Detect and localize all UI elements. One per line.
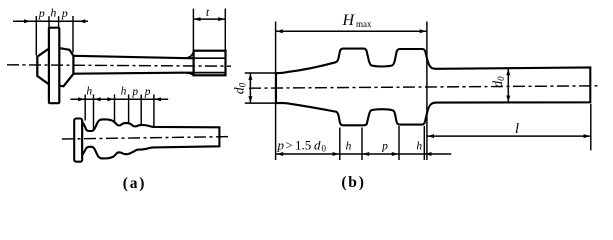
svg-text:h: h [346, 141, 352, 153]
svg-text:h: h [50, 5, 56, 19]
svg-text:(b): (b) [341, 174, 365, 191]
svg-text:p: p [381, 140, 388, 152]
svg-text:0: 0 [322, 143, 327, 153]
svg-text:max: max [356, 19, 372, 29]
svg-text:H: H [342, 12, 356, 29]
svg-text:p: p [131, 86, 138, 98]
svg-text:(a): (a) [123, 175, 146, 192]
svg-text:p: p [61, 6, 68, 20]
svg-text:d: d [314, 137, 321, 152]
svg-text:h: h [86, 85, 92, 97]
svg-text:h: h [121, 85, 127, 97]
svg-text:h: h [416, 141, 422, 153]
svg-text:l: l [515, 121, 519, 137]
svg-text:>: > [286, 137, 293, 152]
svg-text:1.5: 1.5 [295, 137, 311, 152]
svg-text:p: p [277, 137, 285, 152]
svg-text:p: p [144, 86, 151, 98]
svg-text:p: p [38, 6, 45, 20]
